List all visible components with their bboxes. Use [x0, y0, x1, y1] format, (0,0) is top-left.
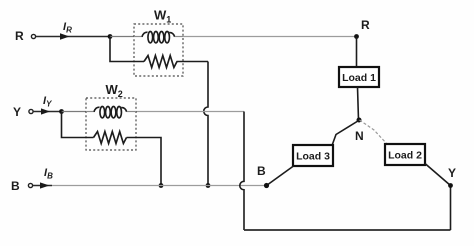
svg-text:Load 3: Load 3	[296, 151, 330, 163]
current coil W1	[134, 32, 183, 43]
wire W1 pressure right	[177, 61, 209, 63]
wire bottom run	[244, 229, 451, 231]
load 2 box	[385, 144, 425, 165]
svg-text:R: R	[361, 18, 370, 32]
wire N to Load3	[332, 120, 360, 146]
svg-text:IY: IY	[43, 95, 52, 109]
svg-text:B: B	[257, 164, 266, 178]
wire B line right (faint)	[52, 185, 267, 187]
wire Y line right (faint)	[136, 111, 244, 113]
svg-text:B: B	[11, 179, 20, 193]
svg-text:IB: IB	[44, 167, 53, 181]
svg-text:W2: W2	[106, 82, 123, 99]
arrow IR	[60, 33, 70, 40]
node Y load terminal	[448, 183, 453, 188]
svg-text:R: R	[15, 29, 24, 43]
wire W2 pressure right	[127, 138, 162, 184]
wattmeter W1 box	[134, 24, 183, 76]
current coil W2	[86, 107, 136, 118]
node B terminal	[28, 183, 32, 187]
arrow IB	[40, 182, 50, 188]
wire Y line left	[33, 111, 62, 113]
wire W2 pressure left	[62, 112, 94, 138]
svg-text:IR: IR	[63, 21, 72, 35]
wire Load2 to Y node	[425, 164, 451, 186]
wire W1 pressure drop (hops over Y line)	[204, 62, 208, 184]
svg-text:W1: W1	[154, 8, 171, 25]
junction on Y line	[59, 109, 64, 114]
node B load terminal	[264, 183, 269, 188]
wire Load1 to N	[358, 87, 359, 120]
junction on R line	[108, 34, 113, 39]
arrow IY	[41, 108, 50, 114]
wattmeter W2 box	[86, 98, 136, 150]
node Y terminal	[29, 109, 33, 113]
load 1 box	[339, 67, 379, 87]
svg-text:Y: Y	[13, 105, 21, 119]
pressure coil W2 (resistor)	[94, 132, 127, 144]
wire Load3 to B node	[267, 166, 294, 186]
load 3 box	[293, 145, 333, 166]
node R terminal	[31, 34, 35, 38]
wire N to Load2 (faint)	[360, 120, 388, 144]
svg-text:Load 1: Load 1	[342, 72, 376, 84]
wire R line right (faint)	[183, 36, 357, 38]
wire Y phase drop (hops over B line)	[240, 112, 244, 231]
svg-text:Y: Y	[448, 166, 456, 180]
wire W1 pressure left	[110, 37, 144, 62]
svg-text:N: N	[355, 129, 364, 143]
node R load terminal	[354, 34, 359, 39]
wire R drop to Load1	[356, 37, 358, 68]
svg-text:Load 2: Load 2	[388, 150, 422, 162]
wire R line left	[36, 36, 110, 38]
wire Y riser	[450, 186, 452, 230]
node N	[357, 118, 362, 123]
junction on B line (W2 pressure)	[159, 183, 164, 188]
wire R line mid	[110, 36, 134, 38]
wire Y line mid	[62, 111, 87, 113]
pressure coil W1 (resistor)	[144, 56, 177, 68]
junction on B line (W1 pressure)	[206, 183, 211, 188]
wire B line left	[33, 185, 53, 187]
